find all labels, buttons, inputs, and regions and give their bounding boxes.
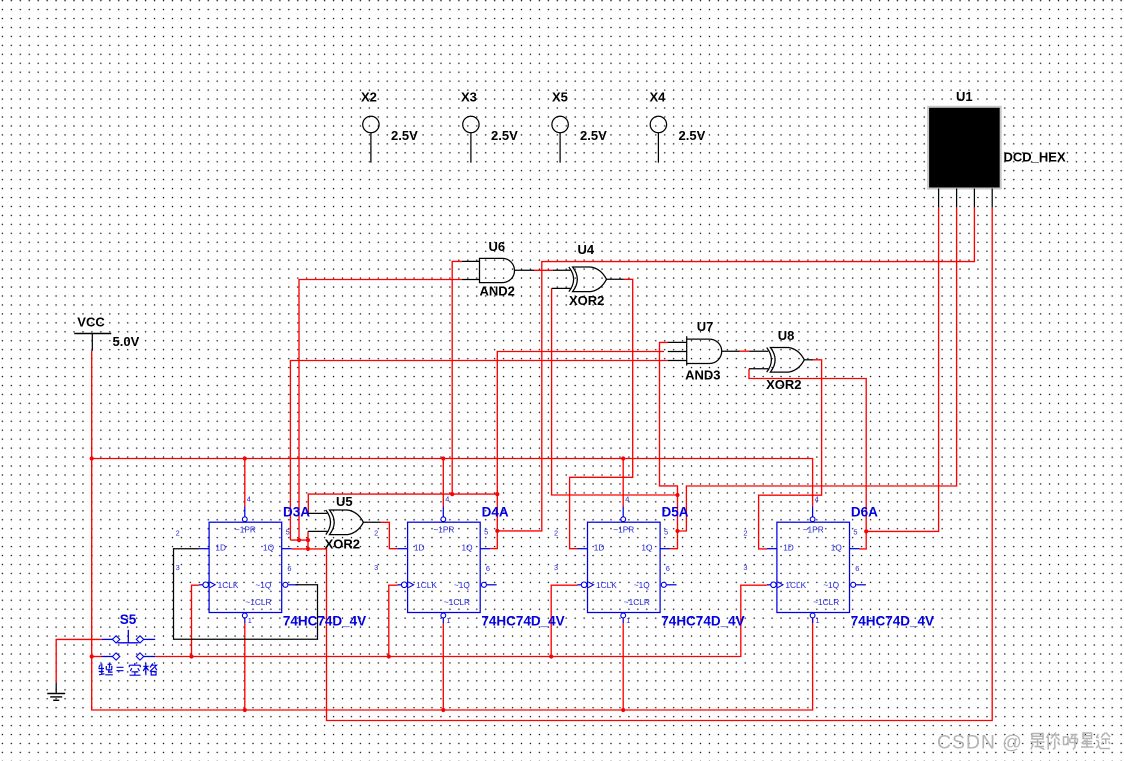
你 — [1047, 733, 1060, 750]
svg-text:D4A: D4A — [482, 504, 509, 519]
wire U6 input A from horizontal A — [452, 261, 462, 494]
svg-text:X5: X5 — [552, 90, 568, 105]
wire U8 output to D6A.1D — [759, 360, 822, 549]
wire U7 output link — [740, 350, 750, 352]
probe X3 — [463, 116, 479, 162]
wire D5A CLK drop — [551, 585, 577, 656]
glyph 键 — [99, 664, 105, 675]
svg-text:U7: U7 — [697, 319, 714, 334]
途 — [1096, 733, 1110, 749]
U1 pin stubs — [939, 189, 993, 208]
wire D4A CLR to bus1 — [442, 623, 444, 710]
wire net D4A.1Q : up to U7 input B — [490, 352, 664, 549]
switch S5 (SPDT key = space) — [102, 630, 156, 660]
svg-text:VCC: VCC — [77, 315, 105, 330]
svg-text:U6: U6 — [489, 239, 506, 254]
wire U6 output to U4 input A — [534, 269, 553, 271]
svg-text:DCD_HEX: DCD_HEX — [1004, 149, 1066, 164]
op XOR2 gate U5 — [308, 510, 381, 535]
wire D3A feedback ~1Q to 1D (black) — [174, 549, 318, 640]
svg-text:X4: X4 — [650, 90, 667, 105]
svg-text:5.0V: 5.0V — [113, 334, 140, 349]
wire net D5A.1Q : branch to U1 pin2 — [678, 207, 957, 531]
svg-text:74HC74D_4V: 74HC74D_4V — [851, 613, 934, 628]
svg-text:74HC74D_4V: 74HC74D_4V — [283, 613, 366, 628]
junction dots — [90, 456, 869, 712]
svg-text:S5: S5 — [120, 612, 137, 627]
glyph 格 — [143, 663, 157, 675]
op AND3 gate U7 — [668, 336, 740, 365]
probe X4 — [650, 116, 666, 162]
probe X2 — [363, 116, 379, 162]
svg-text:74HC74D_4V: 74HC74D_4V — [481, 613, 564, 628]
svg-text:XOR2: XOR2 — [766, 377, 801, 392]
wire S5 bottom-left to VCC rail — [92, 656, 102, 658]
wire net D3A.1Q : up to U7 input C — [290, 361, 667, 541]
wire D5A CLR to bus1 — [622, 623, 624, 710]
probe X5 — [552, 116, 568, 162]
svg-text:D3A: D3A — [283, 504, 310, 519]
wire net D3A.1Q : branch to U5 lower input — [307, 531, 309, 549]
wire net D3A.1Q : up to U6 input B — [299, 280, 462, 541]
flip-flop D4A 74HC74D_4V — [374, 494, 497, 625]
op XOR2 gate U4 — [552, 267, 624, 292]
= — [117, 667, 124, 670]
svg-text:D6A: D6A — [851, 504, 878, 519]
svg-text:U4: U4 — [578, 242, 595, 257]
svg-text:U5: U5 — [336, 494, 353, 509]
svg-text:D5A: D5A — [662, 504, 689, 519]
wire U4 input B from D5A.1Q net — [552, 288, 678, 495]
flip-flop D6A 74HC74D_4V — [743, 494, 866, 625]
wire CLK bus from S5 to D6A CLK — [155, 585, 767, 656]
flip-flop D3A 74HC74D_4V — [176, 494, 299, 625]
wire net D4A.1Q : branch to U1 pin3 (long top wire) — [497, 207, 974, 531]
svg-text:2.5V: 2.5V — [491, 128, 518, 143]
wire D5A PR drop — [622, 459, 624, 507]
wire net D3A.1Q : to bus2 and U1 pin4 — [292, 207, 993, 720]
svg-text:X3: X3 — [461, 90, 477, 105]
svg-text:XOR2: XOR2 — [569, 293, 604, 308]
wire U8 input B from D6A.1Q — [749, 369, 866, 549]
svg-text:X2: X2 — [361, 90, 377, 105]
svg-text:U1: U1 — [956, 89, 973, 104]
svg-text:AND2: AND2 — [480, 283, 515, 298]
wire D4A PR drop — [442, 459, 444, 507]
op AND2 gate U6 — [462, 258, 534, 282]
wire VCC vertical rail + CLR bus (bus1) + up to D6A CLR — [92, 351, 813, 710]
wire VCC horizontal bus to D6A PR — [92, 459, 813, 507]
svg-text:XOR2: XOR2 — [325, 537, 360, 552]
op XOR2 gate U8 — [749, 348, 813, 373]
wire D3A CLK drop — [192, 585, 200, 656]
value label: 键 = 空格 (drawn glyphs) — [99, 663, 157, 675]
svg-text:2.5V: 2.5V — [391, 128, 418, 143]
wire D4A CLK drop — [389, 585, 398, 656]
svg-text:2.5V: 2.5V — [679, 128, 706, 143]
svg-text:2.5V: 2.5V — [580, 128, 607, 143]
wire S5 top-left to ground — [56, 639, 102, 682]
display U1 DCD_HEX — [928, 107, 1001, 189]
power VCC symbol — [74, 334, 111, 351]
svg-text:74HC74D_4V: 74HC74D_4V — [661, 613, 744, 628]
wire horizontal A (D4A.1Q to U5 upper input) — [308, 494, 497, 513]
wire U4 output to D5A.1D — [570, 279, 633, 548]
wire D3A PR drop — [244, 459, 246, 507]
wire U5 output to D4A.1D — [381, 522, 398, 548]
glyph 空 — [129, 663, 140, 675]
wire net D6A.1Q : branch to U1 pin1 — [866, 207, 938, 531]
呀 — [1064, 735, 1079, 750]
svg-text:CSDN @: CSDN @ — [937, 732, 1023, 754]
flip-flop D5A 74HC74D_4V — [554, 494, 677, 625]
svg-text:AND3: AND3 — [685, 368, 720, 383]
wire D3A CLR to bus1 — [244, 623, 246, 710]
是 — [1031, 734, 1045, 750]
wire net D3A.1Q : jog at 540 — [290, 539, 308, 541]
wire net D5A.1Q : up to U7 input A — [660, 342, 678, 548]
ground symbol — [47, 682, 65, 700]
星 — [1081, 733, 1094, 747]
svg-text:U8: U8 — [778, 328, 795, 343]
